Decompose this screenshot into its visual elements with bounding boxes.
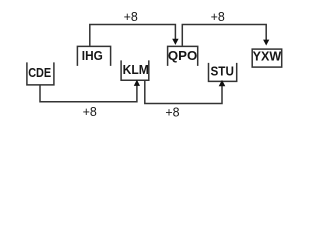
- box IHG: [77, 46, 110, 66]
- box CDE: [27, 62, 54, 85]
- label +8 (CDE to KLM): [83, 104, 97, 119]
- svg-text:KLM: KLM: [123, 62, 149, 77]
- arrowhead into QPO: [172, 39, 178, 45]
- wire IHG to QPO (top bracket 1): [90, 25, 176, 46]
- svg-text:IHG: IHG: [82, 48, 103, 63]
- wire KLM to STU (bottom bracket 2): [145, 81, 222, 104]
- box QPO: [168, 46, 198, 66]
- wire CDE to KLM (bottom bracket 1): [40, 85, 137, 102]
- wire QPO to YXW (top bracket 2): [182, 25, 266, 46]
- svg-text:QPO: QPO: [168, 48, 197, 63]
- label +8 (IHG to QPO): [124, 9, 138, 24]
- arrowhead into STU: [219, 80, 226, 86]
- svg-text:CDE: CDE: [28, 65, 51, 80]
- arrowhead into KLM: [134, 80, 140, 86]
- box KLM: [121, 60, 149, 80]
- box YXW: [252, 48, 282, 67]
- box STU: [209, 63, 237, 82]
- svg-text:YXW: YXW: [253, 48, 282, 63]
- svg-text:+8: +8: [83, 104, 97, 119]
- arrowhead into YXW: [263, 40, 269, 46]
- svg-text:+8: +8: [211, 9, 225, 24]
- svg-text:STU: STU: [211, 63, 234, 78]
- label +8 (QPO to YXW): [211, 9, 225, 24]
- svg-text:+8: +8: [124, 9, 138, 24]
- svg-text:+8: +8: [165, 104, 179, 119]
- label +8 (KLM to STU): [165, 104, 179, 119]
